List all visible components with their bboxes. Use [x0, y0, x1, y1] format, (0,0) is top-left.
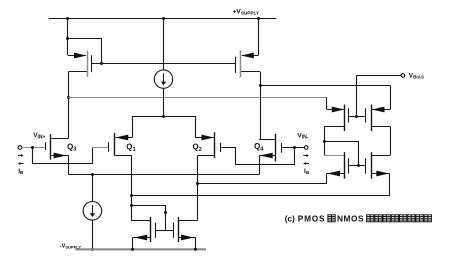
wire Q1/Q2 source yoke: [133, 117, 196, 138]
wire mirror diode connection: [130, 204, 167, 231]
svg-text:-VSUPPLY: -VSUPPLY: [60, 243, 82, 249]
label V_BIAS: [409, 72, 424, 79]
annotation IB- arrows: [303, 154, 310, 175]
wire Q2 drain down: [197, 156, 199, 221]
-V_SUPPLY label: [60, 243, 82, 249]
caption (c) PMOS and NMOS combined differential input stage: [285, 214, 432, 224]
transistor M6 (upper cascode right PMOS): [357, 105, 391, 132]
wire VBIAS down to cascode gates: [355, 76, 358, 119]
wire VIN+ jog to Q1 gate: [33, 148, 93, 164]
transistor M1 (top-left PMOS): [68, 50, 92, 77]
wire VIN- jog to Q2 gate: [236, 148, 295, 165]
+V supply rail: [49, 18, 277, 20]
current source CS2: [83, 175, 102, 251]
node: rail junction M2: [257, 17, 260, 20]
wire Q4 drain up: [258, 139, 260, 141]
terminal VBIAS: [357, 74, 405, 78]
+V_SUPPLY label: [233, 9, 260, 16]
wire L2 Q1-drain to lower cascode right source: [130, 174, 390, 198]
wire M1 drain down: [68, 72, 70, 139]
svg-text:VBIAS: VBIAS: [409, 72, 424, 79]
label Q4: [254, 142, 264, 152]
svg-text:PMOS: PMOS: [298, 214, 325, 224]
wire M5 drain chain: [323, 126, 344, 155]
node: rail junction CS1: [162, 17, 165, 20]
current source CS1: [154, 18, 172, 118]
transistor Q2 (PMOS input): [195, 132, 220, 158]
wire M2 drain branch to cascode: [260, 86, 390, 110]
svg-text:+VSUPPLY: +VSUPPLY: [233, 9, 260, 16]
transistor Q4 (NMOS input): [259, 134, 281, 162]
wire Q1 gate lead: [93, 147, 108, 149]
wire tail line Q3/Q4 sources: [68, 173, 259, 176]
label V_IN+: [33, 132, 45, 140]
label Q3: [67, 142, 76, 152]
transistor M10 (bottom mirror right NMOS): [165, 217, 197, 251]
-V supply rail: [75, 248, 206, 250]
svg-text:Q4: Q4: [254, 142, 264, 152]
svg-text:Q2: Q2: [193, 143, 202, 153]
label Q1: [126, 142, 135, 152]
wire Q2 gate lead: [221, 147, 236, 149]
svg-text:IB: IB: [304, 168, 310, 175]
svg-text:VIN+: VIN+: [33, 132, 45, 140]
node: rail junction M1: [66, 17, 69, 20]
terminal VIN+: [18, 146, 45, 150]
svg-text:Q3: Q3: [67, 142, 76, 152]
wire M6 drain chain: [372, 126, 391, 155]
transistor M9 (bottom mirror left NMOS): [131, 217, 165, 251]
wire gate line M1-M2: [92, 63, 236, 65]
annotation IB+ arrows: [18, 154, 24, 175]
svg-text:Q1: Q1: [126, 142, 135, 152]
wire W1 long horizontal: [68, 97, 327, 109]
svg-text:(c): (c): [285, 214, 295, 224]
label V_IN-: [297, 133, 308, 141]
terminal VIN-: [282, 146, 308, 150]
label Q2: [193, 143, 202, 153]
wire M1 gate-to-rail jog: [66, 37, 103, 65]
wire Q3 source down: [68, 155, 70, 174]
wire M5 drain to lower gates: [325, 142, 361, 168]
wire M1 source from rail: [67, 18, 69, 55]
wire Q4 source down: [259, 155, 261, 174]
node: M1 drain / W1 junction: [67, 96, 70, 99]
svg-text:VIN-: VIN-: [297, 133, 308, 141]
transistor M7 (lower cascode left NMOS): [327, 152, 359, 179]
wire L1 Q2-drain to lower cascode left source: [196, 174, 327, 186]
wire Q1 drain down: [131, 155, 133, 221]
wire M2 drain down to Q4: [259, 72, 262, 139]
transistor M5 (upper cascode left PMOS): [324, 105, 357, 132]
svg-text:IB: IB: [18, 168, 24, 175]
transistor Q1 (PMOS input): [109, 133, 133, 156]
transistor Q3 (NMOS input): [46, 134, 69, 160]
svg-text:NMOS: NMOS: [337, 214, 364, 224]
transistor M2 (top-right PMOS): [236, 18, 261, 77]
transistor M8 (lower cascode right NMOS): [359, 152, 390, 179]
